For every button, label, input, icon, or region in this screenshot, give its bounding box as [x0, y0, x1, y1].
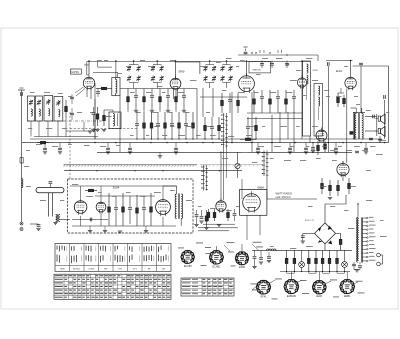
tube V6 EABC80b [316, 128, 327, 143]
resistor R61 [213, 209, 216, 221]
wire B+ riser right edge [388, 66, 390, 143]
tube socket U1 ECC85 [181, 251, 195, 264]
resistor R60 [207, 209, 210, 221]
resistor R30 [317, 141, 320, 155]
resistor R3 [143, 89, 146, 111]
resistor R26 [204, 117, 207, 139]
terminal A2 [20, 228, 23, 231]
tube socket U7 EM84 [340, 280, 355, 294]
wire V2 plate loop [175, 61, 200, 63]
wire antenna lead [21, 90, 23, 222]
svg-text:mod. 633 M II: mod. 633 M II [276, 196, 291, 199]
wire bridge left [303, 232, 315, 234]
wire screen rail [120, 88, 197, 90]
wire heater bus [252, 249, 352, 251]
wire V1 plate to bus [88, 61, 90, 75]
wire V7 leads [342, 161, 344, 163]
wire heater bus2 [280, 271, 350, 273]
wire top B+ bus [87, 61, 310, 63]
transformer tap 8 [362, 244, 366, 246]
trimmer capacitor CT3 [127, 76, 131, 82]
tube V2 EF89 [170, 76, 181, 91]
wire V5 plate up [350, 61, 352, 75]
capacitor C57 [90, 218, 92, 222]
capacitor C44 [93, 107, 95, 112]
capacitor C25 [293, 90, 295, 96]
trimmer capacitor CT9 [203, 66, 207, 72]
svg-text:EABC80: EABC80 [287, 295, 297, 298]
wire net7 [271, 115, 273, 152]
capacitor C66 electrolytic [353, 262, 355, 264]
wire speaker feed [376, 114, 378, 136]
wire bridge right [336, 232, 341, 234]
tube V4 EF80 [297, 75, 306, 88]
resistor R71 [293, 250, 296, 271]
resistor R30 [255, 117, 258, 139]
trimmer capacitor CT2 [136, 66, 140, 72]
svg-text:MODUL: MODUL [73, 269, 81, 271]
tube V9 triode [96, 200, 106, 214]
gang link dashed [27, 120, 105, 122]
switch S3 wafer [201, 165, 208, 191]
capacitor C16 [185, 112, 187, 123]
trimmer capacitor CT1 [127, 66, 131, 72]
transformer tap 2 [362, 221, 366, 223]
resistor R47 on rail [37, 141, 49, 144]
IF can T4 [314, 84, 323, 137]
wire right area [379, 136, 381, 140]
mains terminal P1 [377, 253, 381, 257]
resistor R68 [339, 233, 342, 250]
transformer tap 1 [362, 217, 366, 219]
resistor R28 [218, 117, 221, 139]
svg-text:B250 C75: B250 C75 [305, 220, 315, 222]
capacitor C67 electrolytic [359, 262, 361, 265]
capacitor C22 [285, 64, 289, 66]
wire net6 [251, 92, 253, 152]
resistor R56 [150, 193, 153, 226]
wire T1 to bus [115, 61, 117, 78]
wires trimmer bank 1 [129, 64, 139, 66]
wire V11 up [220, 152, 222, 201]
capacitor C14 [171, 112, 173, 123]
svg-text:EL84: EL84 [317, 295, 323, 298]
audio chassis box [68, 179, 194, 233]
ground mid [158, 156, 162, 158]
tuning capacitor CV4 [54, 97, 63, 122]
capacitor C4 [151, 89, 153, 96]
trimmer capacitor CT11 [203, 76, 207, 82]
table T3 contents [182, 279, 233, 294]
capacitor C23 [277, 90, 279, 96]
resistor R24 [285, 90, 288, 113]
tuning capacitor CV3 [44, 96, 53, 122]
capacitor C51 [115, 196, 117, 207]
dial lamp LP2 [301, 250, 303, 261]
resistor R58 [205, 210, 208, 227]
wire detector lead [327, 66, 329, 152]
resistor R22 [269, 90, 272, 113]
transformer tap 3 [362, 225, 366, 227]
node ticks on bus [260, 50, 282, 54]
svg-text:CONV: CONV [88, 269, 94, 271]
oscillator coil L3 [109, 112, 121, 129]
wire socket links [252, 244, 258, 250]
capacitor C74 rail stub [175, 143, 177, 148]
resistor R11 [150, 112, 153, 139]
wire S1 extension [222, 149, 224, 200]
wire det rail [200, 96, 247, 98]
capacitor C29 [247, 117, 249, 126]
svg-text:ECH81: ECH81 [213, 265, 221, 268]
table T2 frame [54, 274, 171, 299]
transformer tap 11 [362, 256, 366, 258]
resistor R75 [321, 250, 324, 271]
wire net9 [287, 112, 289, 139]
wire B+ rail [22, 142, 389, 144]
IF transformer T1 can [112, 78, 120, 96]
capacitor C78 rail stub [335, 143, 337, 148]
wire rail partial [34, 136, 98, 138]
tube V5 EL84 [345, 75, 356, 90]
resistor R34 [337, 180, 340, 196]
transformer tap 7 [362, 240, 366, 242]
potentiometer P1 volume [235, 152, 240, 178]
trimmer capacitor CT15 [220, 76, 224, 82]
trimmer capacitor CT16 [228, 76, 232, 82]
wire mains [382, 255, 384, 264]
capacitor C6 [167, 89, 169, 96]
wire V1 pins down [86, 89, 88, 97]
resistor R76 [328, 250, 331, 271]
resistor R70 [285, 250, 288, 271]
table T1 frame [55, 244, 171, 272]
resistor R27 blob [350, 131, 354, 134]
tuning capacitor CV2 [36, 96, 43, 121]
trimmer capacitor CT10 [212, 66, 216, 72]
table T1 grid [55, 244, 171, 272]
tube V10 output [156, 197, 171, 216]
table T3 frame [181, 278, 234, 296]
trimmer capacitor CT7 [151, 76, 155, 82]
wire htr drop [241, 179, 243, 199]
label box ECH81 [71, 69, 82, 74]
wire det link [247, 118, 302, 120]
wire audio top rail [70, 185, 177, 187]
capacitor C29 [369, 138, 373, 140]
capacitor C75 rail stub [257, 143, 259, 148]
tube socket U5 EABC80 [284, 280, 299, 294]
wire socket drop S3 [241, 244, 243, 252]
svg-text:EM84: EM84 [258, 186, 265, 189]
resistor R74 [315, 250, 318, 271]
terminal A1 [20, 222, 23, 225]
wire net2 [196, 89, 198, 140]
IF can T3 [303, 61, 311, 136]
capacitor C48 [96, 92, 100, 94]
capacitor C28 [355, 151, 359, 153]
wire net10 [293, 112, 295, 152]
svg-text:EF89: EF89 [239, 266, 245, 269]
tube V11 triode small [216, 198, 226, 212]
capacitor C64 [268, 252, 270, 256]
capacitor C31 [312, 143, 314, 147]
resistor R73 [307, 250, 310, 271]
resistor R52 [122, 193, 125, 226]
capacitor C18 [229, 93, 231, 99]
wire net0 [94, 99, 96, 139]
choke L2 [267, 249, 277, 250]
gang link dashed 2 [70, 128, 137, 130]
wire net11 [301, 87, 303, 139]
svg-text:WATT RADIO: WATT RADIO [276, 192, 293, 196]
grounds audio [88, 231, 92, 233]
wire net8 [279, 112, 281, 143]
resistor R32 [321, 178, 324, 194]
rectifier bridge B1 [315, 223, 336, 245]
resistor R13 [164, 112, 167, 139]
capacitor C43 [70, 113, 74, 115]
capacitor C63 [260, 250, 262, 257]
wire riser2 [384, 100, 386, 139]
fuse F1 on supply [244, 47, 257, 54]
tube V8 triode [74, 198, 87, 215]
resistor R31 [324, 141, 327, 152]
capacitor C70 rail stub [44, 143, 46, 148]
dial lamp LP8 [344, 250, 346, 261]
wire V1 feeders [86, 62, 88, 76]
capacitor C53 [129, 196, 131, 207]
transformer tap 12 [362, 260, 366, 262]
resistor R17 [221, 93, 224, 113]
wire audio mid rail [95, 195, 155, 197]
wire det down [266, 176, 268, 199]
transformer tap 4 [362, 229, 366, 231]
tube socket U3 EF89 [235, 252, 248, 265]
wire V2 plate to bus [175, 61, 177, 78]
capacitor C79 rail stub [365, 143, 367, 148]
wire osc net [66, 130, 95, 132]
svg-text:EM84: EM84 [344, 295, 351, 298]
chassis shield line right part [200, 165, 262, 167]
capacitor C55 [143, 196, 145, 207]
wires trimmer bank 3 [206, 64, 215, 66]
capacitor C20 [260, 64, 264, 66]
resistor R19 [237, 93, 240, 113]
ferrite antenna stem [47, 193, 49, 217]
switch S1 wafer [221, 113, 228, 149]
transformer tap 6 [362, 237, 366, 239]
capacitor C2 [135, 89, 137, 96]
trimmer capacitor CT6 [159, 66, 163, 72]
tube V3 EABC80 [239, 73, 255, 93]
wire net12 [309, 136, 311, 143]
note text [198, 226, 238, 229]
tube socket U2 ECH81 [209, 251, 223, 265]
capacitor C40 [21, 92, 23, 96]
svg-text:OEM: OEM [60, 269, 65, 271]
capacitor C73 rail stub [129, 143, 131, 148]
transformer tap 10 [362, 252, 366, 254]
resistor R40 [65, 100, 68, 118]
capacitor C12 [157, 112, 159, 123]
wire osc join [104, 109, 113, 111]
svg-text:EF89: EF89 [179, 71, 185, 74]
capacitor C27 [373, 115, 375, 119]
tube socket U4 EF41 [256, 280, 270, 294]
switch S2 wafer [262, 151, 269, 177]
resistor R42 [103, 110, 106, 126]
trimmer capacitor CT4 [136, 76, 140, 82]
capacitor C26 [384, 95, 386, 99]
wire V4 up [301, 61, 303, 78]
EM84 indicator box [240, 189, 267, 215]
tube V12 EM84 [243, 191, 261, 213]
antenna terminal [18, 89, 25, 91]
speaker LS2 [378, 126, 385, 136]
wire AGC rail [97, 151, 352, 153]
svg-text:50M2: 50M2 [313, 70, 319, 72]
capacitor C69 [234, 209, 236, 213]
svg-text:ECC85: ECC85 [184, 265, 192, 268]
capacitor C58 [196, 210, 198, 214]
capacitor C77 rail stub [305, 143, 307, 148]
wire bus right drop [360, 66, 362, 113]
resistor R28 [337, 93, 340, 107]
output transformer OT2 [175, 186, 183, 226]
tube V1 ECH81 [83, 75, 94, 90]
wire bridge bottom [324, 244, 326, 251]
ground PSU [354, 269, 360, 271]
power transformer TR1 [357, 203, 363, 262]
capacitor C21 [261, 90, 263, 96]
wire EM84 down [246, 215, 248, 240]
trimmer capacitor CT12 [212, 76, 216, 82]
capacitor C27 [211, 117, 213, 126]
resistor R46 [96, 87, 112, 90]
capacitor C62 [254, 250, 256, 256]
resistor R1 [127, 89, 130, 111]
wire V8 net [80, 186, 82, 198]
capacitor C24 [328, 62, 330, 66]
resistor R17 [192, 112, 195, 139]
detector can T6 [249, 61, 271, 73]
wire socket drop S2 [215, 246, 217, 251]
svg-text:EABC80: EABC80 [253, 68, 262, 71]
chassis shield line [64, 165, 198, 167]
wire V10 plate [163, 185, 177, 187]
wire net13 [317, 136, 319, 139]
resistor R41 [96, 107, 99, 126]
wire V3 top [246, 61, 248, 76]
wire net1 [119, 96, 121, 153]
capacitor C59 [201, 210, 203, 216]
trimmer capacitor CT5 [151, 66, 155, 72]
resistor R15 [178, 112, 181, 139]
wires trimmer bank 4 [223, 64, 231, 66]
transformer tap 9 [362, 248, 366, 250]
svg-text:EF41: EF41 [261, 295, 267, 298]
resistor R36 [240, 138, 256, 141]
capacitor C21 [270, 64, 274, 66]
table T1 contents [57, 245, 169, 270]
wire audio bottom rail [72, 225, 176, 227]
tube socket U6 EL84 [312, 281, 326, 294]
ground osc [88, 131, 92, 133]
ferrite antenna FA1 [36, 188, 64, 193]
capacitor C41 [30, 223, 39, 225]
resistor R5 [159, 89, 162, 111]
table T2 grid [54, 274, 171, 299]
IF T1 winding [116, 80, 117, 94]
tube V7 EL84b [337, 161, 349, 177]
speaker LS1 [378, 114, 385, 124]
wire V9 net [100, 186, 102, 200]
resistor R35 [348, 178, 351, 194]
ground V7 cathode [328, 198, 332, 200]
capacitor C9 [136, 112, 138, 123]
tuning capacitor CV1 [28, 96, 35, 121]
trimmer capacitor CT13 [220, 66, 224, 72]
mains terminal P2 [377, 262, 381, 266]
resistor R62 [227, 209, 230, 221]
transformer tap 5 [362, 233, 366, 235]
wire net3 [202, 88, 204, 117]
wire upper supply link [238, 54, 318, 56]
wire V10 net [162, 186, 164, 197]
svg-text:EL84: EL84 [336, 70, 342, 73]
wire gang commons [30, 121, 32, 137]
coupling transformer T5 [53, 214, 70, 225]
wire net4 [212, 88, 214, 117]
wires trimmer bank 2 [153, 64, 162, 66]
table T3 grid [181, 278, 234, 296]
resistor R10 [143, 112, 146, 139]
component box K1 [20, 158, 23, 164]
resistor R7 [175, 89, 178, 111]
svg-text:ECH81: ECH81 [71, 72, 79, 74]
coil L1 [22, 179, 23, 188]
wire V2 cathode [173, 89, 175, 99]
resistor R29 [343, 95, 346, 107]
capacitor C65 [301, 236, 305, 238]
trimmer capacitor CT14 [228, 66, 232, 72]
resistor R77 [336, 250, 339, 271]
resistor R57 [85, 189, 97, 192]
wire to sockets [290, 272, 292, 280]
capacitor C71 rail stub [59, 143, 61, 148]
trimmer capacitor CT8 [159, 76, 163, 82]
resistor R54 [136, 195, 139, 226]
wire heater pairs [287, 272, 295, 274]
resistor R50 [108, 193, 111, 226]
capacitor C42 [70, 97, 74, 99]
heater rail above box [64, 170, 242, 172]
capacitor C76 rail stub [289, 143, 291, 148]
table T2 contents [55, 275, 171, 298]
resistor R20 [253, 90, 256, 113]
wire R28 net [338, 92, 344, 94]
capacitor C72 rail stub [107, 143, 109, 148]
output transformer OT1 [351, 108, 365, 140]
resistor R33 [329, 180, 332, 196]
capacitor C8 [183, 89, 185, 96]
ground eye bus [203, 223, 235, 225]
wire AVC rail [30, 138, 382, 140]
wire bridge top [324, 204, 326, 223]
wire net5 [231, 92, 233, 143]
